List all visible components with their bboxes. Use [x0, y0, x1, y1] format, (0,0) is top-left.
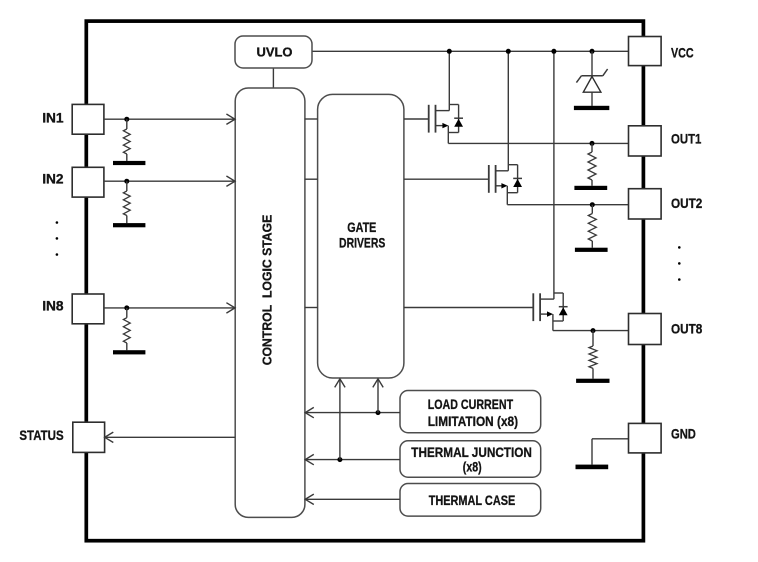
wire: GND pin to ground [592, 439, 629, 465]
ground: GND pin [576, 465, 609, 470]
svg-text:OUT1: OUT1 [671, 131, 702, 147]
pin IN8 [72, 294, 104, 324]
block U-GD GATE DRIVERS [318, 94, 404, 378]
node: IN1 junction [124, 117, 129, 122]
transistor Q3 (N-MOSFET with body diode) [404, 51, 629, 330]
IC package outline [86, 21, 643, 541]
node: OUT2 junction [590, 202, 595, 207]
ground: OUT1 resistor [574, 186, 607, 190]
svg-text:THERMAL JUNCTION: THERMAL JUNCTION [411, 445, 532, 460]
pin VCC [629, 37, 662, 66]
wire: feedback up to gate drivers (left) [339, 380, 341, 460]
ground: IN8 resistor [113, 350, 145, 354]
wire: control logic to STATUS [105, 436, 235, 438]
svg-text:(x8): (x8) [463, 459, 482, 474]
pin IN1 [72, 104, 104, 134]
wire: IN2 to control logic [104, 180, 235, 182]
transistor Q2 (N-MOSFET with body diode) [404, 51, 629, 204]
svg-text:STATUS: STATUS [19, 427, 63, 443]
node: rail junction Q3 [551, 49, 556, 54]
svg-text:DRIVERS: DRIVERS [339, 236, 385, 251]
node: IN8 junction [124, 305, 129, 310]
svg-text:GATE: GATE [347, 220, 376, 235]
svg-text:GND: GND [671, 426, 696, 442]
svg-text:OUT8: OUT8 [671, 320, 702, 336]
node: rail junction Q2 [506, 49, 511, 54]
ellipsis: right outputs [678, 246, 681, 281]
svg-text:IN8: IN8 [42, 297, 64, 313]
pin GND [629, 423, 662, 453]
resistor R-OUT1 [588, 143, 596, 185]
wire: UVLO to control logic drop [272, 68, 274, 88]
pin OUT8 [629, 314, 662, 345]
pin OUT2 [629, 189, 662, 219]
resistor R-IN2 pulldown [123, 181, 130, 223]
ground: zener [574, 106, 609, 110]
pin STATUS [73, 422, 105, 452]
svg-text:LOAD CURRENT: LOAD CURRENT [428, 397, 514, 412]
wire: CLS-GD link 1 [305, 118, 318, 120]
block U-CLS CONTROL LOGIC STAGE [235, 88, 305, 517]
node: rail junction zener [590, 49, 595, 54]
node: OUT1 junction [590, 141, 595, 146]
wire: CLS-GD link 3 [305, 307, 318, 309]
node: junction load-current / gate-driver feedback [376, 410, 381, 415]
svg-text:LIMITATION (x8): LIMITATION (x8) [428, 414, 518, 429]
wire: thermal case to control logic [306, 498, 400, 500]
resistor R-IN1 pulldown [123, 119, 130, 161]
svg-text:IN2: IN2 [42, 171, 64, 187]
resistor R-OUT2 [588, 205, 596, 248]
ground: IN1 resistor [113, 161, 145, 165]
node: OUT8 junction [591, 328, 596, 333]
svg-text:CONTROL LOGIC STAGE: CONTROL LOGIC STAGE [260, 214, 275, 365]
svg-text:IN1: IN1 [42, 109, 64, 125]
wire: CLS-GD link 2 [305, 178, 318, 180]
svg-text:OUT2: OUT2 [671, 195, 702, 211]
ground: OUT2 resistor [575, 248, 608, 252]
block THERMAL CASE [400, 484, 541, 517]
svg-text:UVLO: UVLO [257, 45, 293, 59]
wire: IN1 to control logic [104, 118, 235, 120]
block LOAD CURRENT LIMITATION (x8) [400, 391, 541, 433]
ground: OUT8 resistor [576, 379, 609, 383]
svg-text:VCC: VCC [671, 44, 694, 60]
wire: IN8 to control logic [104, 307, 235, 309]
pin IN2 [72, 167, 104, 197]
wire: thermal junction to control logic [306, 459, 400, 461]
ellipsis: left inputs [56, 221, 59, 256]
block UVLO [235, 36, 312, 68]
node: IN2 junction [124, 179, 129, 184]
ground: IN2 resistor [113, 223, 145, 227]
zener diode D1 on VCC rail [576, 51, 607, 106]
node: junction thermal-junction / gate-driver feedback [337, 457, 342, 462]
node: rail junction Q1 [447, 49, 452, 54]
svg-text:THERMAL CASE: THERMAL CASE [429, 493, 516, 508]
resistor R-OUT8 [589, 331, 597, 379]
block THERMAL JUNCTION (x8) [400, 441, 541, 477]
resistor R-IN8 pulldown [123, 308, 130, 350]
pin OUT1 [629, 126, 662, 156]
wire: load current limitation to control logic [306, 412, 400, 414]
transistor Q1 (N-MOSFET with body diode) [404, 51, 629, 143]
wire: VCC top rail from UVLO to VCC pin [312, 50, 629, 52]
wire: feedback up to gate drivers (right) [377, 380, 379, 413]
